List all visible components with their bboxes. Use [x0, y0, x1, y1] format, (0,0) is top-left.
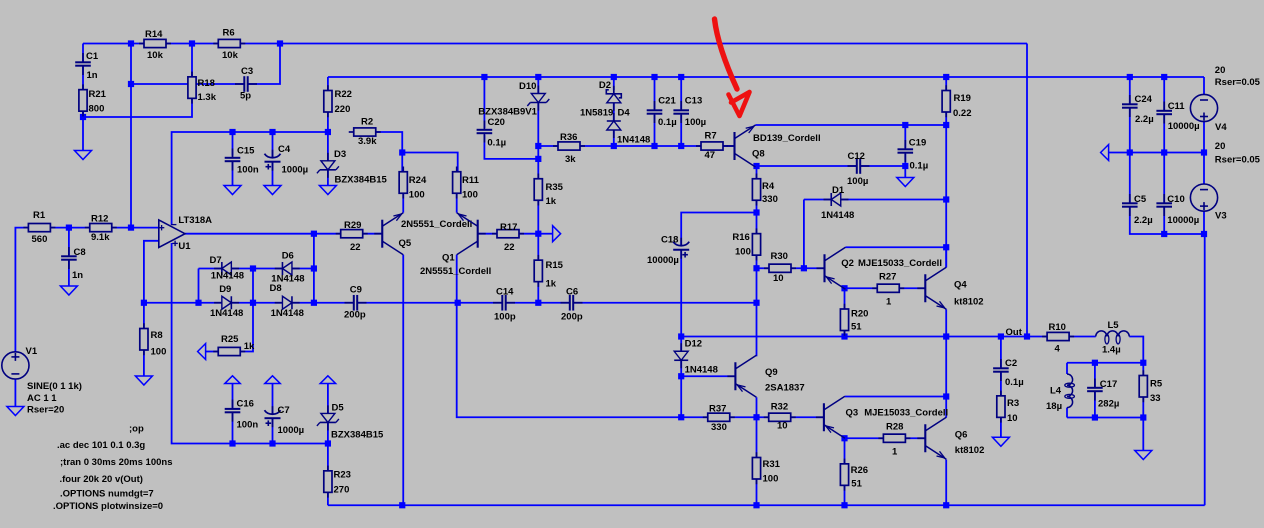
svg-text:MJE15033_Cordell: MJE15033_Cordell — [858, 258, 942, 269]
svg-text:R17: R17 — [500, 222, 517, 233]
svg-text:R16: R16 — [732, 232, 749, 243]
wire bias rail y146 — [614, 145, 702, 147]
svg-text:800: 800 — [89, 104, 105, 115]
wire R23 top stem — [327, 444, 329, 472]
wire Q2 collector rail — [846, 246, 947, 248]
svg-text:1N4148: 1N4148 — [821, 210, 854, 221]
svg-text:.OPTIONS plotwinsize=0: .OPTIONS plotwinsize=0 — [53, 501, 163, 512]
svg-text:0.1µ: 0.1µ — [658, 117, 677, 128]
svg-text:R25: R25 — [221, 334, 239, 345]
resistor R31 — [756, 452, 758, 457]
wire output node vertical x946 — [945, 337, 947, 397]
svg-text:Rser=0.05: Rser=0.05 — [1215, 155, 1261, 166]
resistor R18 — [191, 72, 193, 77]
voltage source V1 — [2, 352, 29, 379]
svg-text:L5: L5 — [1108, 320, 1120, 331]
svg-text:R8: R8 — [151, 330, 163, 341]
svg-text:18µ: 18µ — [1046, 401, 1062, 412]
wire R22 top stem — [327, 77, 329, 90]
svg-text:R37: R37 — [709, 404, 726, 415]
resistor R25 — [213, 351, 218, 353]
wire C2 bottom to R3 — [1000, 373, 1002, 397]
wire C21 bottom stem — [654, 115, 656, 146]
op-amp U1 LT318A — [159, 220, 185, 248]
wire R15 stems — [537, 234, 539, 259]
wire right output drop from top rail — [1026, 44, 1028, 337]
resistor R22 — [327, 85, 329, 90]
transistor Q9 — [734, 362, 736, 390]
wire D12 node down to lower rail — [680, 376, 682, 417]
wire C1 top stem — [82, 44, 84, 63]
wire C4 bottom stem — [272, 162, 274, 185]
svg-text:D5: D5 — [332, 403, 345, 414]
svg-text:51: 51 — [851, 479, 862, 490]
svg-text:D8: D8 — [270, 283, 282, 294]
svg-text:330: 330 — [762, 194, 778, 205]
svg-text:200p: 200p — [344, 310, 366, 321]
svg-text:2.2µ: 2.2µ — [1135, 114, 1154, 125]
transistor Q5 — [381, 220, 383, 248]
wire Q6 emitter stem to bottom rail — [945, 460, 947, 506]
svg-text:R27: R27 — [879, 272, 896, 283]
wire feedback mid rail y84 — [131, 83, 244, 85]
svg-text:D4: D4 — [618, 108, 631, 119]
wire Q3 collector rail — [845, 396, 946, 398]
wire R24 top stem — [401, 153, 403, 173]
svg-text:C16: C16 — [237, 399, 254, 410]
svg-text:100: 100 — [735, 247, 751, 258]
wire R28 right to Q6 base — [905, 437, 925, 439]
wire mid clamp vertical to R25 — [252, 269, 254, 303]
resistor R26 — [844, 459, 846, 464]
svg-text:10k: 10k — [147, 50, 164, 61]
wire R36 left stem — [538, 145, 559, 147]
capacitor C5 — [1129, 194, 1131, 203]
wire L4 bottom stem — [1066, 408, 1068, 418]
svg-text:R23: R23 — [334, 470, 351, 481]
wire C13 top stem — [680, 77, 682, 109]
svg-text:1k: 1k — [546, 196, 557, 207]
svg-text:R18: R18 — [198, 78, 215, 89]
wire R5 stems — [1142, 363, 1144, 376]
wire R18 top stem — [191, 44, 193, 78]
resistor R12 — [85, 227, 90, 229]
svg-text:V4: V4 — [1215, 122, 1227, 133]
resistor R4 — [756, 174, 758, 179]
wire C6 right to VAS node — [574, 302, 756, 304]
svg-text:C13: C13 — [685, 96, 702, 107]
wire C18 top link — [681, 213, 756, 246]
resistor R7 — [696, 145, 701, 147]
wire D4 bottom stem — [613, 130, 615, 146]
diode D12 — [680, 343, 682, 351]
wire diode clamp left vertical — [198, 269, 200, 303]
zener diode D3 — [327, 153, 329, 161]
svg-text:1k: 1k — [546, 279, 557, 290]
svg-text:C21: C21 — [658, 96, 676, 107]
capacitor C9 — [345, 302, 354, 304]
schottky diode D2 — [613, 86, 615, 94]
svg-text:47: 47 — [705, 150, 716, 161]
svg-text:282µ: 282µ — [1098, 399, 1119, 410]
wire bias rail to output devices y336.5 — [681, 336, 946, 338]
wire R8 top stem — [143, 303, 145, 329]
diode D7 — [214, 268, 222, 270]
capacitor C19 — [904, 140, 906, 149]
svg-text:BZX384B15: BZX384B15 — [335, 175, 388, 186]
svg-text:Q6: Q6 — [955, 430, 968, 441]
svg-text:D6: D6 — [282, 251, 294, 262]
wire R30 right to Q2 base — [790, 267, 824, 269]
svg-text:Q5: Q5 — [399, 238, 412, 249]
wire C24 stems — [1129, 77, 1131, 104]
svg-text:Out: Out — [1006, 327, 1023, 338]
wire L5 right corner down — [1129, 337, 1143, 363]
svg-text:1N4148: 1N4148 — [685, 365, 718, 376]
capacitor C11 — [1163, 102, 1165, 111]
wire C7 stems — [272, 384, 274, 414]
resistor R17 — [492, 233, 497, 235]
svg-text:R12: R12 — [91, 214, 108, 225]
wire D2 top stem — [613, 77, 615, 90]
transistor Q1 — [477, 220, 479, 248]
svg-text:10000µ: 10000µ — [1168, 121, 1200, 132]
wire Q3 emitter node — [845, 437, 884, 439]
wire bottom rail right riser — [1204, 234, 1206, 505]
wire R19 top stem — [945, 77, 947, 90]
svg-text:2N5551_Cordell: 2N5551_Cordell — [401, 219, 472, 230]
resistor R16 — [756, 228, 758, 233]
capacitor C1 — [82, 53, 84, 62]
svg-text:R11: R11 — [462, 175, 480, 186]
svg-text:.OPTIONS numdgt=7: .OPTIONS numdgt=7 — [60, 489, 154, 500]
wire opamp V- down to C16 rail — [172, 243, 233, 444]
svg-text:1N4148: 1N4148 — [271, 308, 304, 319]
svg-text:R7: R7 — [705, 131, 717, 142]
svg-text:C12: C12 — [848, 151, 865, 162]
svg-text:20: 20 — [1215, 141, 1226, 152]
ground below C15 — [224, 186, 241, 195]
resistor R21 — [82, 84, 84, 89]
wire Q6 collector stem — [945, 397, 947, 418]
svg-text:5p: 5p — [240, 91, 251, 102]
svg-text:3k: 3k — [565, 154, 576, 165]
wire bottom negative rail — [328, 504, 1205, 506]
svg-text:C6: C6 — [566, 287, 578, 298]
svg-text:R35: R35 — [546, 182, 564, 193]
svg-text:0.1µ: 0.1µ — [910, 161, 929, 172]
resistor R27 — [872, 287, 877, 289]
wire C1-R21 link — [82, 66, 84, 90]
svg-text:R6: R6 — [223, 27, 235, 38]
wire L4 top stem — [1066, 363, 1068, 374]
wire C21 top stem — [654, 77, 656, 109]
wire positive supply rail — [328, 76, 1204, 78]
svg-text:R3: R3 — [1007, 398, 1019, 409]
svg-text:33: 33 — [1150, 393, 1161, 404]
capacitor C20 — [483, 121, 485, 130]
transistor Q8 — [733, 132, 735, 160]
wire D5 stems — [327, 384, 329, 414]
svg-text:L4: L4 — [1050, 386, 1062, 397]
wire D2-D4 link — [613, 103, 615, 121]
wire opamp minus input from R8 node — [144, 241, 159, 303]
svg-text:2N5551_Cordell: 2N5551_Cordell — [420, 266, 491, 277]
svg-text:10: 10 — [1007, 413, 1018, 424]
svg-text:560: 560 — [32, 234, 48, 245]
wire output to diode clamp verticals — [313, 234, 315, 303]
wire R21 bottom to node — [83, 98, 192, 117]
svg-text:MJE15033_Cordell: MJE15033_Cordell — [864, 408, 948, 419]
wire V1 bottom to ground — [14, 379, 16, 406]
wire V3 bottom stem — [1203, 211, 1205, 234]
svg-text:C17: C17 — [1100, 379, 1117, 390]
svg-text:100: 100 — [763, 474, 779, 485]
wire C5 stems — [1129, 153, 1131, 204]
wire C13 bottom stem — [680, 115, 682, 146]
svg-text:100: 100 — [462, 190, 478, 201]
resistor R1 — [23, 227, 28, 229]
wire R4 stems — [756, 166, 758, 179]
wire C19 top stem — [904, 125, 906, 148]
transistor Q6 — [924, 424, 926, 452]
wire R1-R12 link with C8 tap — [50, 227, 90, 229]
wire V3 top stem — [1203, 153, 1205, 184]
svg-text:C3: C3 — [241, 66, 253, 77]
capacitor C10 — [1163, 194, 1165, 203]
diode D8 — [275, 302, 283, 304]
wire lower bias rail y417 R37 to R32 — [730, 416, 769, 418]
svg-text:10k: 10k — [222, 50, 239, 61]
wire R35 top stem — [537, 159, 539, 180]
wire R2 right corner down — [376, 132, 402, 153]
wire R17 right to R35 node — [519, 233, 538, 235]
diode D6 — [275, 268, 283, 270]
resistor R19 — [945, 85, 947, 90]
svg-text:D10: D10 — [519, 81, 536, 92]
svg-text:10: 10 — [773, 273, 784, 284]
svg-text:270: 270 — [334, 485, 350, 496]
wire D8 right link — [292, 302, 354, 304]
inductor L4 — [1067, 374, 1073, 408]
wire Q8 emitter node to C12 — [757, 165, 857, 167]
wire C15 bottom stem — [232, 162, 234, 186]
capacitor C21 — [654, 101, 656, 110]
svg-text:1N5819: 1N5819 — [580, 108, 613, 119]
ground below V1 — [7, 407, 24, 416]
svg-text:R24: R24 — [409, 175, 427, 186]
svg-text:R5: R5 — [1150, 379, 1163, 390]
svg-text:Q1: Q1 — [442, 253, 455, 264]
wire D7 rail — [199, 268, 222, 270]
wire Q4 collector stem — [945, 247, 947, 267]
svg-text:100p: 100p — [494, 312, 516, 323]
svg-text:3.9k: 3.9k — [358, 136, 377, 147]
svg-text:10000µ: 10000µ — [1167, 215, 1199, 226]
wire R31 stems — [756, 417, 758, 458]
wire output rail Out — [946, 336, 1047, 338]
svg-text:9.1k: 9.1k — [91, 232, 110, 243]
svg-text:2.2µ: 2.2µ — [1134, 215, 1153, 226]
resistor R3 — [1000, 391, 1002, 396]
svg-text:R31: R31 — [763, 459, 781, 470]
svg-text:R36: R36 — [560, 132, 577, 143]
resistor R10 — [1042, 336, 1047, 338]
wire D1 left corner down to R30 node — [803, 200, 805, 269]
svg-text:D12: D12 — [685, 339, 702, 350]
wire Q1 base to R17 — [478, 233, 497, 235]
svg-text:D9: D9 — [219, 284, 231, 295]
wire R19 bottom vertical to Q2 collector — [945, 113, 947, 268]
wire VAS node down to Q9 collector — [756, 303, 758, 357]
wire C16 stems — [232, 384, 234, 408]
svg-text:BZX384B9V1: BZX384B9V1 — [478, 107, 537, 118]
resistor R24 — [402, 167, 404, 172]
wire C12 right to C19 bottom — [861, 165, 906, 167]
wire R7 right to Q8 base — [723, 145, 735, 147]
resistor R2 — [349, 131, 354, 133]
resistor R14 — [139, 43, 144, 45]
svg-text:1: 1 — [886, 297, 892, 308]
svg-text:R14: R14 — [145, 29, 163, 40]
zener diode D5 — [327, 405, 329, 413]
wire C15 top stem — [232, 132, 234, 156]
svg-text:R26: R26 — [851, 465, 868, 476]
svg-text:Q2: Q2 — [841, 258, 854, 269]
junction dots — [128, 40, 134, 46]
inductor L5 — [1096, 331, 1130, 337]
wire D7-D6 link — [231, 268, 282, 270]
svg-text:.four 20k 20 v(Out): .four 20k 20 v(Out) — [60, 474, 143, 485]
svg-text:Q8: Q8 — [752, 148, 765, 159]
resistor R35 — [537, 174, 539, 179]
svg-text:330: 330 — [711, 422, 727, 433]
resistor R11 — [456, 167, 458, 172]
wire net flag stem at R35 node — [538, 233, 552, 235]
svg-text:100µ: 100µ — [685, 117, 706, 128]
wire C19 plates link — [904, 154, 906, 166]
wire C8 bottom to ground — [68, 261, 70, 286]
svg-text:U1: U1 — [178, 241, 191, 252]
wire input vertical x131 — [130, 44, 132, 228]
svg-text:C24: C24 — [1135, 94, 1153, 105]
svg-text:0.1µ: 0.1µ — [487, 138, 506, 149]
svg-text:100: 100 — [151, 347, 167, 358]
wire Q8 collector rail — [756, 124, 947, 126]
diode D9 — [214, 302, 222, 304]
svg-text:22: 22 — [504, 242, 515, 253]
capacitor C14 — [493, 302, 502, 304]
ground below C4 — [264, 186, 281, 195]
resistor R37 — [703, 416, 708, 418]
wire D12 node to Q9 base — [681, 375, 734, 377]
wire D10 bottom through junctions — [537, 103, 539, 159]
resistor R6 — [213, 43, 218, 45]
wire C20 top stem — [483, 77, 485, 128]
wire V4 top corner — [1203, 77, 1205, 94]
svg-text:AC 1 1: AC 1 1 — [27, 393, 57, 404]
diode D1 — [824, 199, 832, 201]
wire R25 left stem to flag — [206, 351, 218, 353]
svg-text:C11: C11 — [1168, 101, 1186, 112]
svg-text:R19: R19 — [954, 93, 971, 104]
wire R29 right to Q5 base — [362, 233, 382, 235]
svg-text:1N4148: 1N4148 — [617, 135, 650, 146]
resistor R32 — [764, 416, 769, 418]
wire R32 right to Q3 base — [790, 416, 824, 418]
polarized capacitor C7 — [265, 410, 281, 414]
svg-text:100: 100 — [409, 190, 425, 201]
resistor R30 — [764, 267, 769, 269]
wire C9 to C14 rail — [358, 302, 502, 304]
wire D6 right to node — [292, 268, 314, 270]
svg-text:Rser=20: Rser=20 — [27, 405, 64, 416]
svg-text:0.1µ: 0.1µ — [1005, 377, 1024, 388]
svg-text:C8: C8 — [74, 247, 86, 258]
wire R5 ground stem — [1142, 418, 1144, 451]
wire C11 stems — [1163, 77, 1165, 111]
capacitor C15 — [232, 149, 234, 158]
wire Q5 emitter stem to R24 — [402, 193, 404, 213]
transistor Q2 — [823, 254, 825, 282]
transistor Q3 — [823, 403, 825, 431]
svg-text:22: 22 — [350, 242, 361, 253]
svg-text:100n: 100n — [237, 420, 259, 431]
ground below C8 — [60, 286, 77, 295]
wire Q1 emitter stem to R11 — [456, 193, 458, 213]
wire R25 right corner — [241, 303, 254, 352]
svg-text:C14: C14 — [496, 287, 514, 298]
wire C16 rail — [233, 443, 328, 445]
svg-text:LT318A: LT318A — [178, 215, 212, 226]
voltage source V4 — [1190, 94, 1217, 121]
capacitor C17 — [1094, 379, 1096, 388]
resistor R8 — [143, 323, 145, 328]
wire mid supply rail y152.5 — [1109, 152, 1204, 154]
wire C4 top stem — [272, 132, 274, 157]
resistor R5 — [1142, 370, 1144, 375]
wire C3 right to top rail — [248, 44, 280, 85]
svg-text:R30: R30 — [771, 251, 788, 262]
wire C20 bottom corner to D10 node — [484, 135, 538, 159]
wire R1 left to V1 — [15, 228, 28, 352]
svg-text:1000µ: 1000µ — [282, 165, 309, 176]
svg-text:C19: C19 — [909, 138, 926, 149]
svg-text:100µ: 100µ — [847, 176, 868, 187]
ground below D3 — [319, 186, 336, 195]
svg-text:R20: R20 — [851, 308, 868, 319]
capacitor C2 — [1000, 359, 1002, 368]
capacitor C8 — [68, 247, 70, 256]
capacitor C3 — [235, 83, 244, 85]
ground below C19 — [897, 178, 914, 187]
zener diode D10 — [537, 86, 539, 94]
svg-text:Q3: Q3 — [846, 408, 859, 419]
wire R3 bottom to ground — [1000, 417, 1002, 437]
svg-text:Q4: Q4 — [954, 279, 967, 290]
wire opamp output — [185, 233, 341, 235]
wire D9-D8 link — [231, 302, 282, 304]
ground below R3 — [992, 437, 1009, 446]
wire C8 top stem — [68, 228, 70, 255]
wire D9 rail to R8 node — [144, 302, 222, 304]
resistor R20 — [844, 304, 846, 309]
net flag up above C16 — [225, 376, 240, 384]
svg-text:C15: C15 — [237, 146, 255, 157]
svg-text:D2: D2 — [599, 80, 611, 91]
voltage source V3 — [1190, 184, 1217, 211]
svg-text:1000µ: 1000µ — [278, 425, 305, 436]
